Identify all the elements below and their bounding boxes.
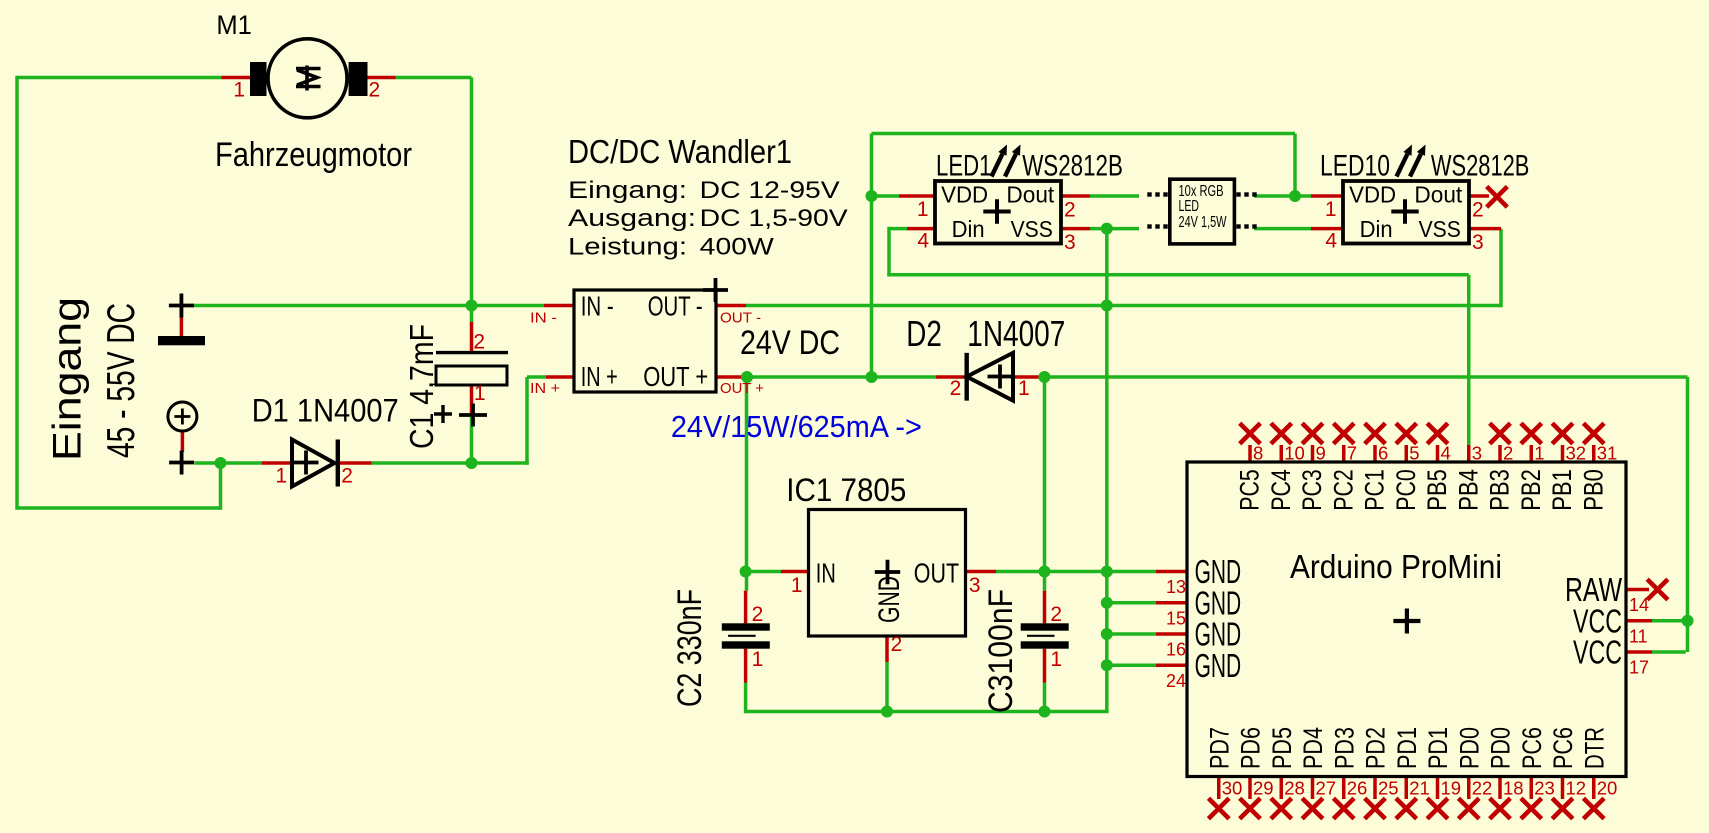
svg-text:15: 15: [1166, 608, 1186, 628]
svg-text:IN -: IN -: [581, 291, 614, 322]
svg-text:PB3: PB3: [1485, 469, 1515, 511]
svg-text:GND: GND: [873, 576, 906, 623]
svg-text:10: 10: [1284, 443, 1305, 464]
svg-text:2: 2: [1503, 443, 1513, 464]
svg-text:5: 5: [1409, 443, 1419, 464]
svg-text:VDD: VDD: [941, 182, 988, 208]
svg-text:M1: M1: [216, 10, 252, 40]
svg-text:16: 16: [1166, 640, 1186, 660]
svg-text:VSS: VSS: [1011, 216, 1053, 242]
svg-text:4: 4: [917, 229, 929, 252]
svg-text:1: 1: [233, 78, 245, 101]
svg-text:1: 1: [1050, 648, 1062, 671]
svg-text:PC2: PC2: [1328, 469, 1358, 511]
svg-text:2: 2: [1064, 199, 1076, 222]
svg-text:Din: Din: [1360, 216, 1393, 242]
svg-text:WS2812B: WS2812B: [1431, 149, 1530, 182]
svg-text:PD4: PD4: [1298, 727, 1328, 769]
svg-text:9: 9: [1316, 443, 1326, 464]
svg-text:PD5: PD5: [1267, 727, 1297, 769]
svg-text:17: 17: [1629, 658, 1649, 678]
svg-text:11: 11: [1629, 626, 1648, 646]
svg-text:DC 1,5-90V: DC 1,5-90V: [700, 205, 848, 232]
svg-text:IN +: IN +: [530, 380, 560, 397]
svg-text:1: 1: [791, 574, 803, 597]
svg-text:PD7: PD7: [1204, 727, 1234, 769]
svg-text:LED1: LED1: [936, 149, 991, 182]
svg-text:32: 32: [1566, 443, 1587, 464]
svg-text:OUT +: OUT +: [720, 380, 764, 397]
svg-text:7: 7: [1347, 443, 1357, 464]
svg-text:OUT +: OUT +: [643, 361, 708, 392]
svg-text:OUT -: OUT -: [648, 291, 703, 322]
svg-text:14: 14: [1629, 595, 1649, 615]
svg-text:LED: LED: [1179, 198, 1200, 215]
svg-text:C3100nF: C3100nF: [982, 589, 1020, 713]
svg-text:C1 4,7mF: C1 4,7mF: [403, 324, 440, 449]
svg-text:13: 13: [1166, 577, 1186, 597]
svg-text:DTR: DTR: [1579, 727, 1609, 769]
svg-text:29: 29: [1253, 778, 1274, 799]
svg-text:PC1: PC1: [1360, 469, 1390, 511]
svg-text:Din: Din: [952, 216, 985, 242]
svg-text:2: 2: [1050, 603, 1062, 626]
svg-text:3: 3: [969, 574, 981, 597]
svg-text:C2 330nF: C2 330nF: [671, 589, 709, 707]
svg-text:D2: D2: [906, 313, 942, 354]
svg-text:4: 4: [1441, 443, 1451, 464]
svg-text:21: 21: [1409, 778, 1430, 799]
svg-text:OUT: OUT: [914, 558, 959, 589]
svg-text:PC3: PC3: [1297, 469, 1327, 511]
svg-text:IN -: IN -: [530, 310, 557, 327]
svg-text:VSS: VSS: [1419, 216, 1461, 242]
svg-text:1: 1: [1325, 198, 1337, 221]
svg-text:1: 1: [1534, 443, 1544, 464]
svg-text:2: 2: [950, 377, 962, 400]
svg-text:31: 31: [1597, 443, 1618, 464]
svg-text:PC6: PC6: [1517, 727, 1547, 769]
svg-text:PC6: PC6: [1548, 727, 1578, 769]
svg-text:PD6: PD6: [1236, 727, 1266, 769]
svg-text:LED10: LED10: [1320, 149, 1390, 182]
svg-text:Ausgang:: Ausgang:: [568, 205, 696, 232]
svg-text:PD1: PD1: [1392, 727, 1422, 769]
svg-text:PB0: PB0: [1578, 469, 1608, 511]
svg-text:PC0: PC0: [1391, 469, 1421, 511]
svg-text:24V DC: 24V DC: [740, 324, 840, 362]
svg-text:PC4: PC4: [1266, 469, 1296, 511]
svg-text:4: 4: [1325, 229, 1337, 252]
svg-text:12: 12: [1566, 778, 1587, 799]
svg-text:20: 20: [1597, 778, 1618, 799]
svg-text:VCC: VCC: [1573, 634, 1622, 671]
svg-text:24V 1,5W: 24V 1,5W: [1179, 214, 1227, 231]
svg-text:Leistung:: Leistung:: [568, 234, 687, 261]
svg-text:2: 2: [341, 465, 353, 488]
svg-text:24: 24: [1166, 671, 1186, 691]
svg-text:1: 1: [474, 382, 486, 405]
svg-text:1: 1: [1018, 377, 1030, 400]
svg-text:3: 3: [1472, 443, 1482, 464]
svg-text:1: 1: [275, 465, 287, 488]
svg-text:PD0: PD0: [1454, 727, 1484, 769]
svg-text:1: 1: [752, 648, 764, 671]
svg-text:Fahrzeugmotor: Fahrzeugmotor: [215, 136, 412, 174]
svg-text:2: 2: [891, 633, 903, 656]
svg-text:PD3: PD3: [1329, 727, 1359, 769]
svg-text:400W: 400W: [700, 234, 774, 261]
svg-text:3: 3: [1472, 231, 1484, 254]
svg-text:30: 30: [1222, 778, 1243, 799]
svg-text:OUT -: OUT -: [720, 310, 761, 327]
svg-text:1: 1: [917, 198, 929, 221]
svg-text:19: 19: [1441, 778, 1462, 799]
svg-text:IN +: IN +: [581, 361, 618, 392]
svg-text:23: 23: [1534, 778, 1555, 799]
svg-text:22: 22: [1472, 778, 1493, 799]
svg-text:25: 25: [1378, 778, 1399, 799]
svg-text:28: 28: [1284, 778, 1305, 799]
svg-text:27: 27: [1316, 778, 1337, 799]
svg-text:VDD: VDD: [1349, 182, 1396, 208]
svg-text:PD0: PD0: [1486, 727, 1516, 769]
svg-text:Dout: Dout: [1414, 182, 1462, 208]
svg-text:Dout: Dout: [1006, 182, 1054, 208]
svg-text:2: 2: [1472, 199, 1484, 222]
svg-text:18: 18: [1503, 778, 1524, 799]
svg-text:PB2: PB2: [1516, 469, 1546, 511]
svg-text:WS2812B: WS2812B: [1022, 149, 1123, 182]
svg-text:8: 8: [1253, 443, 1263, 464]
svg-text:PD1: PD1: [1423, 727, 1453, 769]
svg-text:PB1: PB1: [1547, 469, 1577, 511]
svg-text:2: 2: [752, 603, 764, 626]
svg-text:PD2: PD2: [1361, 727, 1391, 769]
svg-text:2: 2: [369, 78, 381, 101]
svg-text:PC5: PC5: [1235, 469, 1265, 511]
svg-text:1N4007: 1N4007: [967, 313, 1065, 354]
svg-text:6: 6: [1378, 443, 1388, 464]
svg-text:DC/DC Wandler1: DC/DC Wandler1: [568, 133, 792, 170]
svg-text:45 - 55V DC: 45 - 55V DC: [100, 303, 143, 458]
svg-text:Eingang:: Eingang:: [568, 177, 687, 204]
svg-text:Eingang: Eingang: [46, 297, 90, 461]
svg-text:PB5: PB5: [1422, 469, 1452, 511]
svg-text:Arduino ProMini: Arduino ProMini: [1290, 548, 1502, 585]
svg-text:GND: GND: [1195, 647, 1242, 684]
svg-text:D1 1N4007: D1 1N4007: [252, 393, 399, 429]
svg-text:PB4: PB4: [1453, 469, 1483, 511]
svg-text:2: 2: [473, 330, 485, 353]
svg-text:3: 3: [1064, 231, 1076, 254]
svg-text:24V/15W/625mA ->: 24V/15W/625mA ->: [671, 409, 922, 444]
svg-text:IN: IN: [816, 558, 836, 589]
svg-text:IC1 7805: IC1 7805: [786, 472, 906, 508]
svg-text:26: 26: [1347, 778, 1368, 799]
svg-text:DC 12-95V: DC 12-95V: [700, 177, 840, 204]
